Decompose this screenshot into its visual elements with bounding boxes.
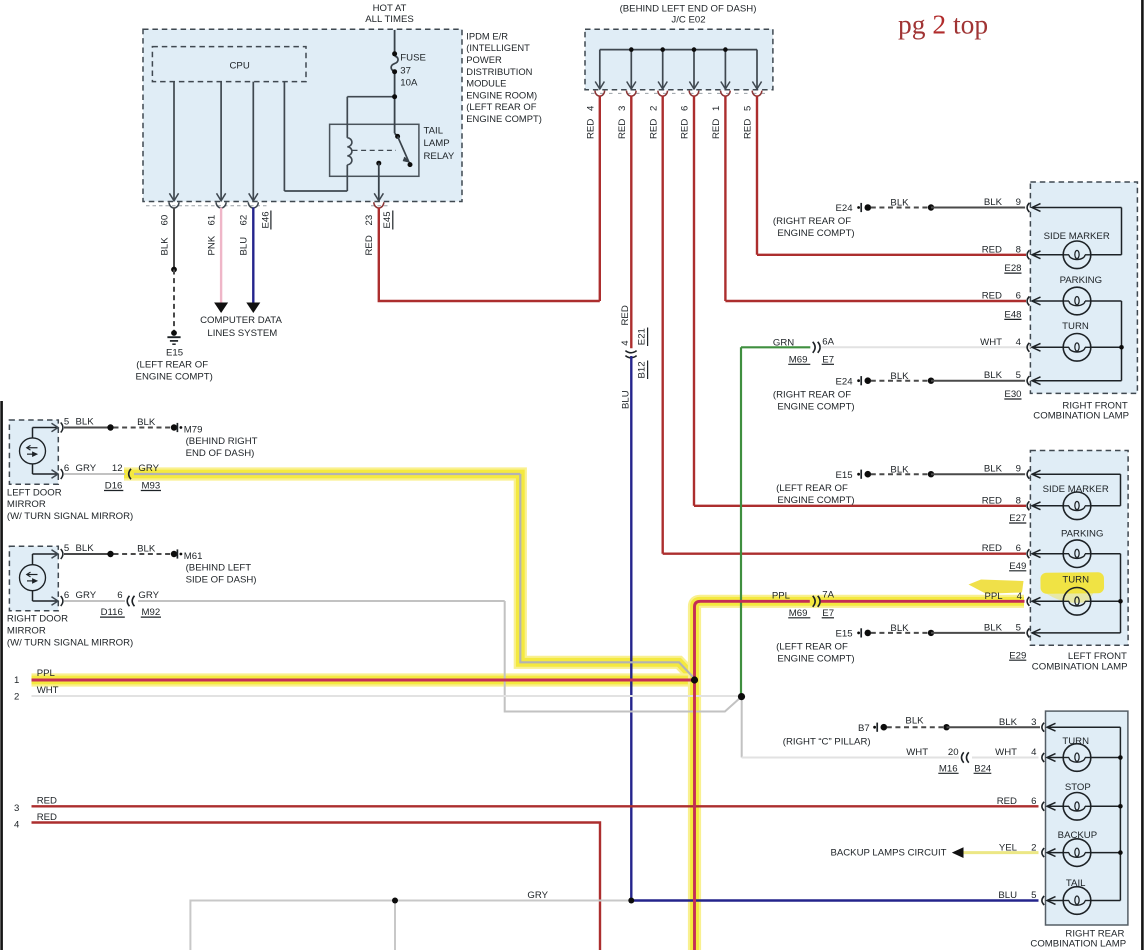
svg-text:20: 20 — [948, 747, 959, 758]
svg-text:BLK: BLK — [984, 370, 1003, 381]
svg-text:BLK: BLK — [76, 417, 95, 428]
svg-text:GRY: GRY — [138, 463, 159, 474]
svg-text:5: 5 — [64, 417, 69, 428]
svg-text:ENGINE COMPT): ENGINE COMPT) — [136, 372, 213, 383]
svg-text:BLK: BLK — [137, 543, 156, 554]
svg-text:GRY: GRY — [76, 590, 97, 601]
svg-text:(BEHIND LEFT END OF DASH): (BEHIND LEFT END OF DASH) — [620, 3, 757, 14]
svg-text:B7: B7 — [858, 723, 870, 734]
svg-text:PNK: PNK — [207, 235, 218, 255]
svg-text:4: 4 — [585, 105, 596, 111]
svg-text:POWER: POWER — [466, 54, 502, 65]
svg-text:(LEFT REAR OF: (LEFT REAR OF — [466, 101, 536, 112]
svg-text:RIGHT DOOR: RIGHT DOOR — [7, 614, 68, 625]
svg-text:M79: M79 — [184, 424, 203, 435]
svg-text:5: 5 — [1016, 622, 1021, 633]
svg-text:LINES SYSTEM: LINES SYSTEM — [207, 328, 277, 339]
svg-text:4: 4 — [1031, 747, 1037, 758]
svg-text:(LEFT REAR OF: (LEFT REAR OF — [776, 483, 848, 494]
svg-text:BLK: BLK — [137, 417, 156, 428]
svg-text:LEFT FRONT: LEFT FRONT — [1068, 651, 1127, 662]
svg-text:6A: 6A — [822, 337, 834, 348]
svg-text:5: 5 — [1016, 370, 1021, 381]
svg-text:ENGINE COMPT): ENGINE COMPT) — [777, 654, 854, 665]
svg-text:GRY: GRY — [527, 890, 548, 901]
svg-text:(BEHIND LEFT: (BEHIND LEFT — [186, 562, 252, 573]
svg-text:E24: E24 — [836, 376, 854, 387]
svg-text:MIRROR: MIRROR — [7, 499, 46, 510]
svg-text:RED: RED — [997, 796, 1017, 807]
svg-text:HOT AT: HOT AT — [373, 3, 407, 14]
svg-text:4: 4 — [14, 819, 20, 830]
svg-text:8: 8 — [1016, 495, 1021, 506]
svg-text:8: 8 — [1016, 244, 1021, 255]
svg-text:(W/ TURN SIGNAL MIRROR): (W/ TURN SIGNAL MIRROR) — [7, 637, 133, 648]
svg-text:BLK: BLK — [890, 198, 909, 209]
svg-text:MODULE: MODULE — [466, 78, 506, 89]
svg-text:3: 3 — [14, 803, 19, 814]
svg-text:6: 6 — [64, 590, 69, 601]
svg-text:(RIGHT “C” PILLAR): (RIGHT “C” PILLAR) — [783, 736, 871, 747]
svg-text:TURN: TURN — [1062, 736, 1089, 747]
svg-text:RED: RED — [743, 119, 754, 139]
svg-text:PPL: PPL — [772, 590, 791, 601]
svg-text:7A: 7A — [822, 590, 834, 601]
svg-text:WHT: WHT — [906, 747, 928, 758]
svg-text:3: 3 — [617, 106, 628, 111]
svg-text:BLK: BLK — [999, 717, 1018, 728]
svg-text:M61: M61 — [184, 551, 203, 562]
svg-text:SIDE OF DASH): SIDE OF DASH) — [186, 575, 257, 586]
svg-text:E46: E46 — [260, 211, 271, 228]
svg-text:4: 4 — [1017, 591, 1023, 602]
svg-text:E15: E15 — [166, 347, 183, 358]
svg-text:(INTELLIGENT: (INTELLIGENT — [466, 42, 530, 53]
svg-text:E21: E21 — [636, 328, 647, 345]
svg-text:60: 60 — [159, 215, 170, 226]
svg-text:COMPUTER DATA: COMPUTER DATA — [200, 315, 282, 326]
svg-text:RED: RED — [982, 291, 1002, 302]
svg-text:BLK: BLK — [984, 464, 1003, 475]
svg-text:WHT: WHT — [37, 685, 59, 696]
svg-text:WHT: WHT — [995, 747, 1017, 758]
svg-text:5: 5 — [1031, 890, 1036, 901]
svg-text:pg 2 top: pg 2 top — [898, 9, 988, 40]
svg-text:SIDE MARKER: SIDE MARKER — [1044, 231, 1110, 242]
svg-text:B12: B12 — [636, 361, 647, 378]
svg-text:BLK: BLK — [905, 715, 924, 726]
svg-text:PPL: PPL — [37, 668, 56, 679]
svg-text:BACKUP: BACKUP — [1058, 830, 1097, 841]
svg-text:RED: RED — [617, 119, 628, 139]
svg-text:E15: E15 — [836, 470, 853, 481]
svg-text:RED: RED — [711, 119, 722, 139]
svg-text:E24: E24 — [836, 203, 854, 214]
svg-text:E15: E15 — [836, 629, 853, 640]
svg-text:ENGINE COMPT): ENGINE COMPT) — [777, 495, 854, 506]
svg-text:COMBINATION LAMP: COMBINATION LAMP — [1030, 939, 1126, 950]
svg-text:6: 6 — [1031, 796, 1036, 807]
svg-text:2: 2 — [648, 106, 659, 111]
svg-text:GRN: GRN — [773, 337, 794, 348]
svg-text:RED: RED — [648, 119, 659, 139]
svg-text:TAIL: TAIL — [424, 125, 444, 136]
svg-text:WHT: WHT — [980, 337, 1002, 348]
svg-text:PPL: PPL — [984, 591, 1003, 602]
svg-text:5: 5 — [64, 543, 69, 554]
svg-text:BACKUP LAMPS CIRCUIT: BACKUP LAMPS CIRCUIT — [830, 848, 946, 859]
svg-text:MIRROR: MIRROR — [7, 625, 46, 636]
svg-text:BLK: BLK — [984, 622, 1003, 633]
svg-text:10A: 10A — [400, 78, 418, 89]
svg-text:E45: E45 — [382, 211, 393, 228]
svg-text:ENGINE ROOM): ENGINE ROOM) — [466, 89, 537, 100]
svg-text:RED: RED — [364, 235, 375, 255]
svg-text:6: 6 — [1016, 543, 1021, 554]
svg-text:LEFT DOOR: LEFT DOOR — [7, 487, 62, 498]
svg-text:BLK: BLK — [890, 371, 909, 382]
svg-text:BLU: BLU — [621, 390, 632, 409]
svg-text:RED: RED — [680, 119, 691, 139]
svg-text:9: 9 — [1016, 464, 1021, 475]
svg-text:5: 5 — [743, 106, 754, 111]
svg-text:END OF DASH): END OF DASH) — [186, 448, 255, 459]
svg-text:PARKING: PARKING — [1061, 529, 1103, 540]
svg-text:4: 4 — [620, 340, 631, 346]
svg-text:BLU: BLU — [239, 237, 250, 256]
svg-text:4: 4 — [1016, 337, 1022, 348]
svg-text:COMBINATION LAMP: COMBINATION LAMP — [1033, 411, 1129, 422]
svg-text:BLK: BLK — [76, 543, 95, 554]
svg-text:(W/ TURN SIGNAL MIRROR): (W/ TURN SIGNAL MIRROR) — [7, 511, 133, 522]
svg-text:TURN: TURN — [1062, 575, 1089, 586]
svg-text:62: 62 — [239, 215, 250, 226]
svg-text:RED: RED — [982, 495, 1002, 506]
svg-text:RED: RED — [982, 244, 1002, 255]
svg-text:GRY: GRY — [76, 463, 97, 474]
svg-text:RED: RED — [585, 119, 596, 139]
svg-text:RELAY: RELAY — [424, 151, 455, 162]
svg-text:RED: RED — [37, 795, 57, 806]
svg-text:STOP: STOP — [1065, 782, 1091, 793]
svg-text:6: 6 — [117, 590, 122, 601]
svg-text:COMBINATION LAMP: COMBINATION LAMP — [1032, 662, 1128, 673]
svg-text:ENGINE COMPT): ENGINE COMPT) — [777, 228, 854, 239]
svg-text:ENGINE COMPT): ENGINE COMPT) — [466, 113, 542, 124]
svg-text:2: 2 — [14, 692, 19, 703]
svg-text:BLK: BLK — [890, 623, 909, 634]
svg-text:6: 6 — [680, 106, 691, 111]
svg-text:BLK: BLK — [159, 237, 170, 256]
svg-text:TURN: TURN — [1062, 321, 1089, 332]
svg-text:1: 1 — [14, 675, 19, 686]
svg-text:LAMP: LAMP — [424, 138, 450, 149]
svg-text:J/C E02: J/C E02 — [671, 15, 705, 26]
svg-text:(BEHIND RIGHT: (BEHIND RIGHT — [186, 436, 258, 447]
svg-text:RED: RED — [982, 543, 1002, 554]
svg-text:PARKING: PARKING — [1060, 275, 1102, 286]
svg-text:6: 6 — [64, 463, 69, 474]
svg-text:1: 1 — [711, 106, 722, 111]
svg-text:61: 61 — [207, 215, 218, 226]
svg-text:3: 3 — [1031, 717, 1036, 728]
svg-text:BLU: BLU — [998, 890, 1017, 901]
svg-text:IPDM E/R: IPDM E/R — [466, 30, 508, 41]
svg-text:9: 9 — [1016, 197, 1021, 208]
svg-text:BLK: BLK — [984, 197, 1003, 208]
svg-text:CPU: CPU — [230, 60, 250, 71]
svg-text:DISTRIBUTION: DISTRIBUTION — [466, 66, 532, 77]
svg-text:RED: RED — [620, 305, 631, 325]
svg-text:TAIL: TAIL — [1066, 878, 1086, 889]
svg-text:ENGINE COMPT): ENGINE COMPT) — [777, 401, 854, 412]
svg-text:FUSE: FUSE — [400, 53, 426, 64]
svg-text:GRY: GRY — [138, 590, 159, 601]
svg-text:(RIGHT REAR OF: (RIGHT REAR OF — [773, 216, 851, 227]
svg-text:(RIGHT REAR OF: (RIGHT REAR OF — [773, 389, 851, 400]
svg-text:23: 23 — [364, 215, 375, 226]
svg-text:6: 6 — [1016, 291, 1021, 302]
svg-text:(LEFT REAR OF: (LEFT REAR OF — [776, 642, 848, 653]
svg-text:12: 12 — [112, 463, 123, 474]
svg-text:SIDE MARKER: SIDE MARKER — [1043, 484, 1109, 495]
svg-text:BLK: BLK — [890, 464, 909, 475]
svg-text:ALL TIMES: ALL TIMES — [365, 14, 414, 25]
svg-text:(LEFT REAR OF: (LEFT REAR OF — [136, 359, 208, 370]
svg-text:37: 37 — [400, 65, 411, 76]
svg-text:RED: RED — [37, 812, 57, 823]
